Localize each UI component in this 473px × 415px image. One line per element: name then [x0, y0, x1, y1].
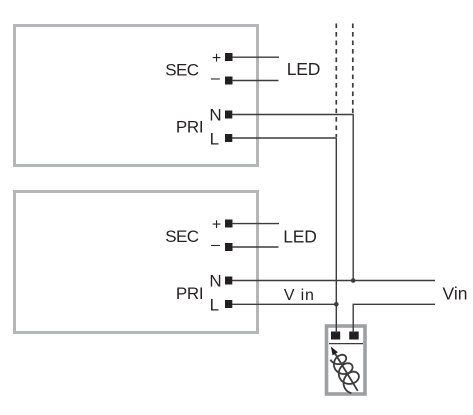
- potentiometer wiper arrowhead: [331, 347, 338, 356]
- svg-text:LED: LED: [283, 227, 316, 247]
- wire driver1 - to LED: [232, 80, 279, 82]
- potentiometer separator line: [329, 343, 363, 345]
- driver1 terminal N: [225, 111, 232, 119]
- potentiometer box: [327, 326, 366, 394]
- svg-text:SEC: SEC: [165, 61, 198, 80]
- wire driver2 L to L bus junction: [232, 303, 336, 305]
- potentiometer coil: [330, 355, 359, 394]
- driver2 terminal -: [225, 243, 233, 251]
- svg-text:PRI: PRI: [176, 117, 203, 136]
- svg-text:+: +: [212, 50, 221, 67]
- svg-text:N: N: [209, 106, 221, 125]
- wire driver2 N to Vin: [232, 280, 435, 282]
- driver1 terminal -: [225, 77, 233, 85]
- svg-text:+: +: [212, 217, 221, 234]
- wire driver2 + to LED: [232, 223, 279, 225]
- driver2 terminal N: [225, 277, 232, 285]
- driver2 terminal L: [225, 300, 232, 308]
- LED driver 2 box: [15, 192, 258, 333]
- svg-text:LED: LED: [287, 59, 320, 79]
- LED driver 1 box: [15, 26, 258, 166]
- driver1 terminal L: [225, 134, 232, 142]
- svg-text:L: L: [210, 129, 219, 148]
- junction L bus: [334, 302, 339, 307]
- driver1 terminal +: [225, 53, 233, 61]
- svg-text:–: –: [211, 236, 220, 253]
- svg-text:L: L: [210, 295, 219, 314]
- svg-text:N: N: [209, 272, 221, 291]
- wire Vin return to potentiometer: [353, 304, 435, 333]
- dashed continuation of N bus: [352, 24, 354, 114]
- svg-text:V in: V in: [284, 287, 315, 304]
- potentiometer terminal left: [331, 332, 340, 340]
- wire driver1 L to L bus: [232, 138, 336, 333]
- dashed continuation of L bus: [335, 24, 337, 138]
- wire driver1 + to LED: [232, 56, 279, 58]
- svg-text:–: –: [211, 70, 220, 87]
- driver2 terminal +: [225, 220, 233, 228]
- svg-text:PRI: PRI: [176, 284, 203, 303]
- svg-text:Vin: Vin: [443, 284, 468, 304]
- junction N bus: [351, 278, 356, 283]
- wire driver1 N to N bus: [232, 115, 353, 281]
- svg-text:SEC: SEC: [165, 227, 198, 246]
- potentiometer terminal right: [349, 332, 359, 340]
- wire driver2 - to LED: [232, 246, 279, 248]
- potentiometer wiper arrow shaft: [334, 352, 358, 391]
